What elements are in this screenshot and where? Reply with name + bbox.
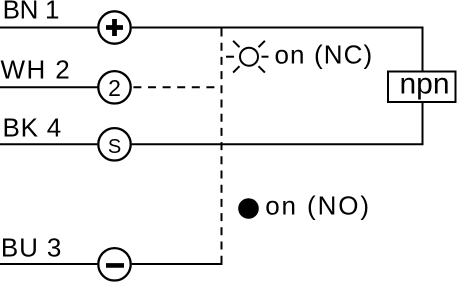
svg-text:BK 4: BK 4 [3,113,63,143]
svg-text:on (NC): on (NC) [275,39,374,69]
svg-text:on (NO): on (NO) [265,191,371,221]
svg-text:2: 2 [108,75,121,101]
svg-text:npn: npn [400,68,450,101]
svg-text:BU 3: BU 3 [1,233,62,263]
svg-text:WH 2: WH 2 [1,54,72,84]
svg-text:S: S [108,136,121,158]
svg-text:BN 1: BN 1 [3,0,60,25]
